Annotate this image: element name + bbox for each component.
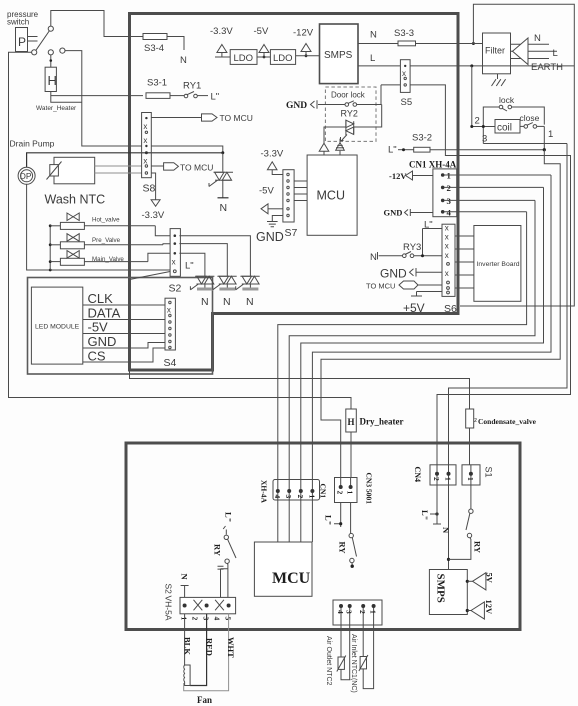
svg-text:VH-5A: VH-5A [164, 596, 174, 621]
svg-text:TO MCU: TO MCU [366, 282, 395, 291]
relay RY lower left [223, 526, 226, 535]
connector CN1 [433, 169, 457, 217]
capacitor C1 [218, 566, 228, 597]
svg-text:CS: CS [88, 349, 106, 364]
power arrow -3.3V [217, 45, 227, 58]
svg-text:LDO: LDO [234, 53, 254, 64]
svg-text:Fan: Fan [197, 695, 212, 705]
power arrow -12V [301, 44, 311, 56]
svg-text:CN4: CN4 [413, 467, 422, 483]
svg-text:2: 2 [358, 610, 367, 614]
power 5V triangle [466, 580, 469, 583]
wire pressure switch top to S3-4 [51, 11, 143, 37]
triac RY2 [346, 120, 354, 135]
svg-text:x: x [143, 157, 147, 166]
wire CN1 pin3 route to lower XH-4A pin2 [289, 200, 535, 491]
triac Q2 [195, 276, 214, 284]
svg-text:Condensate_valve: Condensate_valve [478, 417, 537, 426]
svg-text:S7: S7 [285, 227, 298, 239]
svg-text:L": L" [388, 145, 397, 156]
wire CN1 pin4 route to lower XH-4A pin1 [278, 212, 527, 491]
svg-text:CLK: CLK [88, 291, 114, 306]
svg-text:EARTH: EARTH [531, 62, 563, 73]
svg-text:3: 3 [284, 495, 293, 499]
SMPS U7 lower [429, 570, 467, 615]
svg-text:1: 1 [369, 610, 378, 614]
wire CN1 pin1 route to lower XH-4A pin4 [312, 175, 551, 491]
wire to drain triac [222, 153, 224, 172]
wire drain pump to S8 and triac [27, 153, 223, 167]
MCU power arrow [319, 143, 329, 151]
connector CN3 5001 [335, 478, 358, 503]
svg-text:N: N [180, 574, 190, 581]
LDO U2 [257, 56, 270, 58]
svg-text:coil: coil [497, 123, 512, 134]
svg-text:MCU: MCU [272, 570, 311, 587]
svg-text:L": L" [324, 515, 334, 525]
lower dryer board outline [126, 443, 520, 630]
svg-text:H: H [48, 73, 57, 88]
wires wash NTC to S8 [95, 165, 142, 167]
water heater H box [45, 67, 56, 91]
wire -5V [83, 333, 165, 335]
svg-text:-12V: -12V [293, 28, 314, 39]
wire pressure switch common to left rail down to dry heater [9, 52, 352, 409]
svg-text:x: x [143, 136, 147, 145]
filter ground [492, 74, 506, 86]
wire dry heater to CN3 pin1 [350, 432, 352, 477]
svg-text:Air Outlet NTC2: Air Outlet NTC2 [325, 636, 332, 686]
svg-text:RY3: RY3 [403, 242, 421, 253]
svg-text:lock: lock [499, 95, 515, 105]
wire CN1 pin2 route to lower XH-4A pin3 [301, 187, 544, 491]
ground S7 [267, 216, 283, 227]
svg-text:1: 1 [444, 477, 453, 481]
wire coil terminal3 route to CN4 pin1 [449, 144, 568, 465]
svg-text:TO MCU: TO MCU [220, 113, 253, 123]
LDO U1 [215, 56, 230, 58]
mains entry lines [511, 43, 550, 45]
svg-text:XH-4A: XH-4A [260, 480, 269, 503]
svg-text:Pre_Valve: Pre_Valve [92, 237, 121, 244]
wire S2 L to valve triacs [179, 236, 250, 277]
svg-text:3: 3 [482, 134, 487, 145]
wire BLK [184, 614, 186, 665]
svg-text:Inverter Board: Inverter Board [477, 261, 520, 268]
dry heater H box [346, 409, 357, 432]
svg-text:-3.3V: -3.3V [210, 26, 233, 37]
valve bus [49, 226, 51, 270]
wire mid contact to water heater [50, 55, 52, 67]
svg-text:+5V: +5V [403, 301, 425, 315]
svg-text:CN3 5001: CN3 5001 [365, 473, 374, 505]
relay RY below CN3 [350, 503, 352, 534]
svg-text:S4: S4 [164, 357, 177, 369]
svg-text:x: x [445, 242, 449, 251]
relay RY lower right [470, 485, 472, 509]
svg-text:N: N [370, 30, 377, 41]
svg-text:RY: RY [338, 542, 348, 554]
svg-text:S2: S2 [164, 584, 174, 595]
pressure switch P box [16, 28, 28, 52]
door lock switch [345, 103, 349, 107]
drain pump DP circle [18, 167, 35, 184]
wire right contact down [65, 51, 142, 146]
svg-text:L": L" [185, 261, 194, 272]
wire condensate valve feed [130, 370, 470, 409]
wires S6 to inverter [455, 235, 474, 237]
wire S8 to TO MCU 2 [151, 165, 163, 167]
svg-text:3: 3 [447, 196, 452, 206]
svg-text:x: x [445, 233, 449, 242]
wire S5 to lock circuit [410, 65, 574, 67]
svg-text:Main_Valve: Main_Valve [92, 256, 124, 263]
thermistor NTC1 [362, 625, 364, 657]
main control board outline [130, 14, 459, 371]
connector S2 VH-5A [180, 597, 236, 613]
wire heater pin to triac [151, 146, 223, 153]
condensate valve V2 [466, 409, 474, 428]
svg-text:L: L [553, 48, 558, 59]
power arrow -5V [259, 45, 269, 58]
svg-text:S3-1: S3-1 [147, 78, 167, 89]
resistor S3-4 [143, 34, 167, 40]
wire S5 route to CN4 pin2 [381, 85, 571, 465]
svg-text:L: L [370, 53, 375, 64]
svg-text:switch: switch [7, 18, 29, 27]
valve wires into S2 [155, 226, 170, 236]
svg-text:SMPS: SMPS [324, 50, 353, 61]
svg-text:x: x [445, 251, 449, 260]
svg-text:Water_Heater: Water_Heater [36, 105, 77, 112]
connector S2 [170, 229, 180, 277]
connector S3 NTC [333, 600, 382, 625]
svg-text:S8: S8 [143, 183, 156, 195]
connector S5 [400, 60, 410, 93]
svg-text:x: x [445, 224, 449, 233]
svg-text:2: 2 [191, 617, 200, 621]
display sub-board outline [28, 278, 213, 375]
hot valve [67, 213, 79, 221]
svg-text:Filter: Filter [485, 46, 505, 56]
svg-text:RY1: RY1 [183, 81, 201, 92]
svg-text:-5V: -5V [88, 320, 109, 335]
svg-text:P: P [18, 35, 26, 49]
svg-text:S2: S2 [169, 283, 182, 295]
door lock dashed box [325, 87, 376, 141]
LED module box [31, 287, 82, 364]
MCU U6 lower [254, 542, 312, 596]
wire S8 bottom to -3.3V [151, 173, 155, 200]
connector S1 [462, 465, 480, 485]
svg-text:LDO: LDO [273, 53, 293, 64]
svg-text:5V: 5V [485, 573, 495, 584]
outer loop wire top [460, 4, 574, 306]
power arrow -5V left [261, 204, 268, 214]
wire S8 pin1 to MCU [151, 117, 201, 119]
power arrow -3.3V S7 [267, 162, 283, 175]
svg-text:3: 3 [345, 610, 354, 614]
svg-text:S1: S1 [484, 467, 494, 478]
power arrow down -3.3V [151, 200, 160, 207]
svg-text:Door lock: Door lock [331, 91, 366, 100]
wire CS [83, 348, 165, 362]
svg-text:-12V: -12V [389, 171, 407, 181]
svg-text:Hot_valve: Hot_valve [92, 217, 120, 224]
svg-text:N: N [534, 33, 541, 44]
svg-text:GND: GND [88, 334, 117, 349]
wire drain pump bottom to valve bus [27, 184, 170, 270]
svg-text:12V: 12V [484, 600, 494, 616]
MCU U4 [307, 155, 357, 235]
svg-text:close: close [520, 113, 540, 123]
wire CLK [83, 304, 165, 306]
main valve [67, 251, 79, 259]
coil [495, 120, 520, 134]
MCU gnd arrow [336, 139, 345, 151]
connector S4 [165, 298, 175, 350]
TO MCU arrow 1 [202, 114, 218, 121]
connector S8 [142, 113, 152, 178]
svg-text:4: 4 [336, 610, 345, 614]
svg-text:1: 1 [548, 129, 553, 140]
wire drain bus slant into S2 [130, 272, 171, 280]
svg-text:-5V: -5V [259, 186, 274, 197]
svg-text:S5: S5 [401, 97, 413, 108]
pre valve [67, 234, 79, 242]
connector S6 [442, 224, 455, 296]
svg-text:BLK: BLK [183, 637, 193, 655]
svg-text:-3.3V: -3.3V [261, 149, 284, 160]
svg-text:1: 1 [466, 477, 475, 481]
svg-text:Drain Pump: Drain Pump [10, 139, 55, 149]
svg-text:H: H [348, 417, 355, 427]
svg-text:DP: DP [20, 171, 32, 181]
TO MCU hexagon [399, 281, 418, 289]
svg-text:LED MODULE: LED MODULE [35, 324, 80, 331]
svg-text:Wash NTC: Wash NTC [45, 193, 106, 207]
wash NTC thermistor [54, 157, 95, 184]
wire coil terminal1 route to CN3 pin2 [321, 150, 560, 478]
wires CN1 pins to right routing [444, 174, 551, 176]
svg-text:x: x [143, 122, 147, 131]
svg-text:N: N [441, 527, 451, 534]
svg-text:N: N [220, 202, 228, 214]
svg-text:RY: RY [473, 541, 483, 553]
svg-text:x: x [167, 306, 171, 315]
svg-text:SMPS: SMPS [435, 574, 447, 603]
svg-text:CN1: CN1 [319, 484, 328, 499]
svg-text:2: 2 [475, 116, 480, 127]
TO MCU arrow 2 [164, 163, 179, 170]
svg-text:S3-4: S3-4 [144, 43, 164, 54]
svg-text:x: x [172, 258, 176, 267]
svg-text:Dry_heater: Dry_heater [360, 417, 404, 427]
svg-text:4: 4 [213, 617, 222, 621]
svg-text:N: N [201, 296, 209, 308]
filter box [483, 33, 511, 74]
svg-text:N: N [246, 296, 254, 308]
svg-text:L": L" [211, 92, 220, 103]
svg-text:RY: RY [213, 544, 223, 556]
svg-text:x: x [402, 69, 406, 78]
svg-text:N: N [180, 55, 187, 66]
svg-text:2: 2 [432, 477, 441, 481]
connector S7 [283, 170, 294, 222]
svg-text:-5V: -5V [254, 26, 269, 37]
wire DATA [83, 319, 165, 321]
wire CN4 pin1 to SMPS [448, 485, 450, 570]
pressure switch contacts [48, 26, 53, 31]
wire LDO2 to SMPS [296, 55, 320, 57]
triac Q4 [240, 276, 259, 284]
svg-text:Air Inlet NTC1(NC): Air Inlet NTC1(NC) [350, 634, 357, 693]
thermistor NTC2 [340, 625, 342, 657]
svg-text:L": L" [420, 510, 430, 520]
svg-text:GND: GND [384, 208, 403, 218]
connector CN4 [430, 465, 456, 485]
svg-text:TO MCU: TO MCU [180, 163, 213, 173]
svg-text:2: 2 [447, 183, 452, 193]
svg-text:S6: S6 [444, 303, 457, 315]
svg-text:CN1 XH-4A: CN1 XH-4A [409, 160, 457, 170]
connector XH-4A lower [273, 480, 320, 501]
svg-text:S3-3: S3-3 [394, 28, 414, 39]
wire WHT [184, 614, 229, 691]
svg-text:4: 4 [273, 495, 282, 499]
wire RED [190, 614, 207, 686]
triac Q3 [217, 276, 236, 284]
svg-text:GND: GND [256, 230, 284, 244]
svg-text:S3-2: S3-2 [412, 133, 432, 144]
SMPS U3 [320, 24, 359, 84]
svg-text:DATA: DATA [88, 306, 121, 321]
svg-text:1: 1 [307, 495, 316, 499]
svg-text:z: z [474, 417, 477, 424]
wire heater bottom branches [51, 92, 82, 103]
wire GND [83, 343, 165, 349]
svg-text:RED: RED [205, 638, 215, 656]
power 12V triangle [466, 609, 469, 612]
svg-text:2: 2 [296, 495, 305, 499]
wires S7 to MCU [294, 180, 307, 182]
wire CN4 pin2 to N [433, 485, 441, 524]
+5V terminal [411, 292, 422, 297]
svg-text:x: x [445, 269, 449, 278]
mains connector triangle [513, 38, 529, 65]
svg-text:N: N [223, 296, 231, 308]
svg-text:N: N [370, 252, 377, 263]
fan motor coil [184, 665, 190, 686]
svg-text:RY2: RY2 [341, 109, 358, 119]
svg-text:2: 2 [336, 491, 345, 495]
svg-text:GND: GND [380, 267, 407, 281]
svg-text:-3.3V: -3.3V [142, 210, 165, 221]
svg-text:MCU: MCU [317, 189, 345, 203]
svg-text:GND: GND [286, 101, 307, 111]
svg-text:L": L" [224, 512, 234, 522]
svg-text:1: 1 [346, 491, 355, 495]
wire filter to board [458, 43, 483, 45]
wires XH-4A to lower MCU [277, 500, 279, 542]
inverter board U5 [474, 226, 521, 302]
svg-text:WHT: WHT [226, 637, 236, 658]
triac Q1 drain pump [214, 172, 234, 180]
